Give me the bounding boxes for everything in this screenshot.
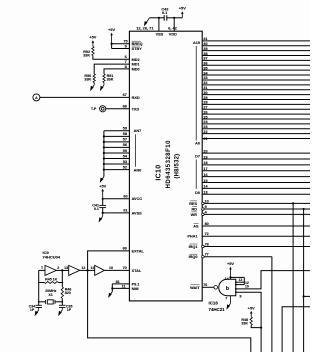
wire address bus pin 35 <box>202 69 310 71</box>
svg-text:52: 52 <box>123 165 127 169</box>
node dot crystal left <box>38 301 40 303</box>
wire AN pin 58 <box>104 135 129 137</box>
wire address bus pin 29 <box>202 98 310 100</box>
svg-text:60: 60 <box>123 194 127 198</box>
wire XTAL pin 70 <box>104 269 129 271</box>
svg-text:68: 68 <box>123 105 127 109</box>
wire gate input 12 <box>236 284 245 286</box>
svg-text:WR: WR <box>191 213 198 217</box>
node junction dot AN0 <box>103 168 105 170</box>
svg-text:30: 30 <box>203 91 207 95</box>
svg-text:MD0: MD0 <box>132 67 140 71</box>
svg-text:41: 41 <box>203 37 207 41</box>
svg-text:28: 28 <box>203 101 207 105</box>
svg-text:RXD: RXD <box>132 96 140 100</box>
svg-text:74HC21: 74HC21 <box>209 307 226 312</box>
wire data bus pin 18 <box>202 164 310 166</box>
svg-text:54: 54 <box>123 154 128 158</box>
wire address bus pin 22 <box>202 133 310 135</box>
resistor R50 <box>93 74 95 83</box>
wire address bus pin 23 <box>202 128 310 130</box>
svg-text:AS: AS <box>193 225 199 229</box>
wire AN pin 52 <box>104 169 129 171</box>
node junction dot AVCC <box>102 198 104 200</box>
svg-text:VSS: VSS <box>156 32 164 36</box>
svg-text:36: 36 <box>203 62 207 66</box>
wire data bus pin 14 <box>202 187 310 189</box>
ground arrow top-left <box>148 18 149 20</box>
wire IRQ0 pin 77 <box>202 256 272 258</box>
svg-text:21: 21 <box>203 137 207 141</box>
svg-text:20: 20 <box>203 149 207 153</box>
wire gate input 9 <box>236 292 261 352</box>
svg-text:+5V: +5V <box>108 27 115 32</box>
capacitor C41 <box>99 205 106 207</box>
svg-text:11: 11 <box>122 284 126 288</box>
svg-text:38: 38 <box>203 52 207 56</box>
node VDD junction dot <box>173 17 175 19</box>
resistor R48 <box>250 317 252 325</box>
svg-text:EXTAL: EXTAL <box>132 249 145 253</box>
capacitor C34 <box>36 305 42 307</box>
svg-text:1: 1 <box>41 266 43 270</box>
node junction dot AN2 <box>103 157 105 159</box>
wire address bus pin 30 <box>202 94 310 96</box>
svg-text:6: 6 <box>125 55 127 59</box>
svg-text:55: 55 <box>123 149 127 153</box>
wire gate input 10 from right <box>236 271 310 289</box>
svg-text:12: 12 <box>81 266 85 270</box>
svg-text:74HCU04: 74HCU04 <box>43 254 61 259</box>
wire RES vertical to bottom <box>292 203 294 352</box>
svg-text:(H8/532): (H8/532) <box>174 154 180 179</box>
inversion bubble IRQ0 <box>202 255 205 258</box>
AN range line <box>135 134 137 167</box>
wire address bus pin 40 <box>202 45 310 47</box>
svg-text:A0: A0 <box>195 142 200 146</box>
inverter U1a (pins 1-2) <box>45 265 56 275</box>
wire AVSS pin 61 <box>103 212 130 214</box>
svg-text:40: 40 <box>203 42 207 46</box>
ground below AN ladder <box>100 177 104 183</box>
svg-text:VDD: VDD <box>169 32 177 36</box>
wire data bus pin 16 <box>202 176 310 178</box>
wire capacitor to AVSS <box>102 208 104 213</box>
wire WR pin 4 <box>202 213 310 215</box>
wire P9.1 pin 81 <box>112 283 129 285</box>
svg-text:+5V: +5V <box>248 305 255 310</box>
svg-text:76: 76 <box>203 283 207 287</box>
wire TXD pin 68 <box>106 108 130 110</box>
wire data bus pin 15 <box>202 181 310 183</box>
svg-text:23: 23 <box>203 125 207 129</box>
inverter U1c (pins 11-10) <box>95 265 105 275</box>
wire address bus pin 31 <box>202 89 310 91</box>
svg-text:AVSS: AVSS <box>132 211 143 215</box>
svg-text:WAIT: WAIT <box>190 286 200 290</box>
svg-text:b: b <box>226 286 229 292</box>
svg-text:13: 13 <box>239 278 243 282</box>
wire address bus pin 33 <box>202 79 310 81</box>
wire BREQ pin 75 <box>112 43 130 45</box>
svg-text:+5V: +5V <box>227 261 234 266</box>
svg-text:9: 9 <box>205 205 207 209</box>
svg-text:MD2: MD2 <box>132 58 140 62</box>
resistor R45 feedback <box>39 282 45 284</box>
ground below C34 <box>38 308 40 310</box>
wire data bus pin 19 <box>202 158 310 160</box>
svg-text:PHA1: PHA1 <box>187 235 197 239</box>
svg-text:1P: 1P <box>30 308 35 312</box>
node dot crystal right <box>61 301 63 303</box>
svg-text:22: 22 <box>203 130 207 134</box>
svg-text:10: 10 <box>205 199 209 203</box>
wire AVCC to capacitor C41 <box>102 199 104 206</box>
svg-text:7: 7 <box>125 60 127 64</box>
svg-text:7: 7 <box>225 296 227 300</box>
wire AN pin 54 <box>104 158 129 160</box>
wire data bus pin 13 <box>202 193 310 195</box>
wire VDD stub to IC top <box>173 18 175 31</box>
wire AS pin 80 <box>202 225 310 227</box>
node junction dot EXTAL tap <box>87 269 89 271</box>
wire AN pin 57 <box>104 141 129 143</box>
svg-text:D7: D7 <box>195 154 200 158</box>
svg-text:D0: D0 <box>195 191 200 195</box>
svg-text:56: 56 <box>123 143 127 147</box>
wire MD0 pin 8 <box>104 69 129 74</box>
svg-text:33K: 33K <box>83 54 90 58</box>
svg-text:IC16: IC16 <box>209 300 219 305</box>
svg-text:17: 17 <box>203 167 207 171</box>
svg-text:67: 67 <box>123 93 127 97</box>
svg-text:STBY: STBY <box>132 47 143 51</box>
wire R46 to crystal <box>61 298 63 305</box>
svg-text:27: 27 <box>203 106 207 110</box>
wire down to STBY <box>111 44 113 49</box>
node junction dot AN4 <box>103 146 105 148</box>
wire PHA1 pin 72 <box>202 235 310 237</box>
svg-text:70: 70 <box>123 266 127 270</box>
wire address bus pin 21 <box>202 138 310 140</box>
capacitor C35 <box>59 305 65 307</box>
svg-text:HD6435328F10: HD6435328F10 <box>166 140 172 189</box>
svg-text:15: 15 <box>203 179 207 183</box>
svg-text:RD: RD <box>192 208 198 212</box>
svg-text:10: 10 <box>109 266 113 270</box>
node junction dot oscillator output <box>61 269 63 271</box>
svg-text:25: 25 <box>203 115 207 119</box>
wire WAIT pin 76 <box>202 286 214 288</box>
svg-text:11: 11 <box>90 266 94 270</box>
wire IRQ1 pin 78 <box>202 246 310 248</box>
power +5V top <box>179 6 186 18</box>
wire R52 to MD2 <box>93 56 129 60</box>
wire address bus pin 34 <box>202 74 310 76</box>
wire AN ladder vertical bus <box>103 131 105 177</box>
svg-text:59: 59 <box>123 127 127 131</box>
wire AN pin 53 <box>104 163 129 165</box>
svg-text:78: 78 <box>205 243 209 247</box>
wire data bus pin 20 <box>202 152 310 154</box>
svg-text:IRQ1: IRQ1 <box>189 245 198 249</box>
ground below gate <box>226 303 230 309</box>
svg-text:2: 2 <box>57 266 59 270</box>
svg-text:X1: X1 <box>48 293 52 297</box>
svg-text:33K: 33K <box>107 78 114 82</box>
wire AN pin 55 <box>104 152 129 154</box>
gate output inversion bubble <box>214 286 218 290</box>
inversion bubble RD <box>202 208 205 211</box>
node junction dot NMI <box>111 287 113 289</box>
wire inverter input pin 1 <box>39 269 45 271</box>
node junction dot AN5 <box>103 141 105 143</box>
resistor R52 <box>92 46 94 55</box>
ground below NMI <box>108 292 112 298</box>
wire IRQ0 down to bottom <box>271 257 273 352</box>
ground below R51 <box>103 83 105 85</box>
node junction dot RD stub <box>303 295 305 297</box>
wire AN pin 56 <box>104 146 129 148</box>
wire address bus pin 39 <box>202 50 310 52</box>
svg-text:33K: 33K <box>84 78 91 82</box>
wire EXTAL pin 69 <box>88 251 130 271</box>
wire AN pin 59 <box>104 130 129 132</box>
svg-text:69: 69 <box>123 247 127 251</box>
svg-text:T.P: T.P <box>91 107 97 111</box>
ground below R50 <box>93 83 95 85</box>
wire P9.1 down to NMI <box>111 284 113 292</box>
wire entering right edge going to bottom <box>282 307 310 352</box>
wire address bus pin 27 <box>202 108 310 110</box>
svg-text:53: 53 <box>123 160 127 164</box>
svg-text:NMI: NMI <box>132 287 139 291</box>
wire RD pin 9 <box>202 208 310 210</box>
wire pin2 to pin13 <box>56 269 68 271</box>
wire R48 to input 9 net <box>251 325 261 327</box>
power +5V for R52 <box>89 35 96 47</box>
svg-text:R45 1K: R45 1K <box>45 278 58 282</box>
wire VSS/VDD top rail <box>149 17 164 19</box>
svg-text:9: 9 <box>125 44 127 48</box>
test point circles <box>100 106 106 112</box>
wire AVCC pin 60 <box>103 198 130 200</box>
svg-text:31: 31 <box>203 86 207 90</box>
svg-text:61: 61 <box>123 209 127 213</box>
wire address bus pin 37 <box>202 59 310 61</box>
svg-text:4: 4 <box>205 210 208 214</box>
wire MD1 pin 7 <box>94 64 129 74</box>
node dot R45 right <box>61 282 63 284</box>
node junction dot RES branch <box>292 202 294 204</box>
microcontroller IC10 body <box>129 31 202 301</box>
wire address bus pin 36 <box>202 64 310 66</box>
svg-text:18: 18 <box>203 161 207 165</box>
wire tied inputs loop right <box>243 277 245 284</box>
capacitor C43 plates <box>163 15 165 20</box>
svg-text:35: 35 <box>203 66 207 70</box>
svg-text:P9.1: P9.1 <box>132 282 140 286</box>
wire address bus pin 38 <box>202 55 310 57</box>
svg-text:AVCC: AVCC <box>132 197 143 201</box>
svg-text:9: 9 <box>240 294 242 298</box>
svg-text:77: 77 <box>205 253 209 257</box>
wire address bus pin 28 <box>202 103 310 105</box>
svg-text:MD1: MD1 <box>132 63 140 67</box>
inversion bubble IRQ1 <box>202 245 205 248</box>
wire address bus pin 25 <box>202 118 310 120</box>
wire tied inputs loop top <box>231 276 245 278</box>
power +5V for gate pin 14 <box>227 261 234 279</box>
wire RES pin 10 <box>202 202 310 204</box>
A bus range line <box>195 46 197 141</box>
svg-text:12, 26, 71: 12, 26, 71 <box>136 26 154 31</box>
svg-text:72: 72 <box>205 232 209 236</box>
power +5V for BREQ/STBY <box>108 27 115 44</box>
node A connector circle <box>33 94 40 101</box>
node dot R45 left <box>38 282 40 284</box>
svg-text:XTAL: XTAL <box>132 269 142 273</box>
svg-text:AN7: AN7 <box>134 129 142 133</box>
wire NMI pin 11 <box>112 287 129 289</box>
wire data bus pin 17 <box>202 170 310 172</box>
svg-text:39: 39 <box>203 47 207 51</box>
svg-text:14: 14 <box>225 277 229 281</box>
wire RD vertical to bottom <box>303 209 305 352</box>
svg-text:37: 37 <box>203 57 207 61</box>
wire rail right segment to +5V <box>167 17 183 19</box>
svg-text:75: 75 <box>123 39 127 43</box>
svg-text:+5V: +5V <box>179 6 186 11</box>
svg-text:26: 26 <box>203 110 207 114</box>
node junction dot BREQ <box>111 43 113 45</box>
svg-text:33: 33 <box>203 76 207 80</box>
svg-text:IRQ0: IRQ0 <box>189 255 198 259</box>
crystal X1 wires <box>39 301 46 303</box>
svg-text:+5V: +5V <box>89 35 96 40</box>
resistor R46 <box>61 287 63 299</box>
gate input connection dots <box>235 281 237 283</box>
svg-text:A19: A19 <box>193 41 200 45</box>
svg-text:TXD: TXD <box>132 107 140 111</box>
svg-text:57: 57 <box>123 138 127 142</box>
wire clock to bottom edge <box>88 270 251 352</box>
svg-text:A: A <box>35 96 38 100</box>
node junction dot AN6 <box>103 135 105 137</box>
node junction dot AVSS <box>102 212 104 214</box>
svg-text:10: 10 <box>245 285 249 289</box>
wire gate input 13 <box>236 281 245 283</box>
node junction dot AN1 <box>103 163 105 165</box>
inverter U1b (pins 13-12) <box>69 265 80 275</box>
svg-text:BREQ: BREQ <box>132 42 143 46</box>
svg-text:19: 19 <box>203 155 207 159</box>
node junction dot RD branch <box>303 208 305 210</box>
svg-text:13: 13 <box>64 266 68 270</box>
svg-text:13: 13 <box>203 190 207 194</box>
svg-text:820: 820 <box>65 291 71 295</box>
svg-text:AN0: AN0 <box>134 168 142 172</box>
svg-text:29: 29 <box>203 96 207 100</box>
inversion bubble RES <box>202 202 205 205</box>
svg-text:IC10: IC10 <box>155 165 162 181</box>
svg-text:58: 58 <box>123 132 127 136</box>
wire address bus pin 41 <box>202 40 310 42</box>
wire oscillator right leg top <box>61 270 63 287</box>
svg-text:80: 80 <box>205 222 209 226</box>
resistor R51 <box>103 74 105 83</box>
node junction dot R48 <box>260 327 262 329</box>
svg-text:32: 32 <box>203 81 207 85</box>
AND gate IC16 body (mirrored) <box>219 279 236 296</box>
wire address bus pin 24 <box>202 123 310 125</box>
wire address bus pin 32 <box>202 84 310 86</box>
crystal X1 body <box>47 300 53 304</box>
wire oscillator left leg <box>38 270 40 305</box>
wire STBY pin 9 <box>112 48 130 50</box>
D bus range line <box>195 160 197 189</box>
node junction dot VCC branch <box>229 276 231 278</box>
svg-text:81: 81 <box>116 280 120 284</box>
svg-text:0.1: 0.1 <box>162 11 167 15</box>
svg-text:0.1: 0.1 <box>94 207 99 211</box>
crystal X1 plates <box>44 300 46 304</box>
svg-text:1P: 1P <box>67 308 72 312</box>
node junction dot AN3 <box>103 152 105 154</box>
wire RD stub to right edge <box>304 295 310 297</box>
wire RXD pin 67 <box>40 96 129 98</box>
inversion bubble WR <box>202 213 205 216</box>
svg-text:8: 8 <box>125 65 127 69</box>
wire pin12 to pin11 <box>80 269 95 271</box>
svg-text:16: 16 <box>203 173 207 177</box>
power +5V for R48 <box>248 305 255 317</box>
wire VSS stub to IC top <box>158 18 160 31</box>
svg-text:RES: RES <box>189 202 197 206</box>
svg-text:6, 42: 6, 42 <box>168 26 177 31</box>
wire address bus pin 26 <box>202 113 310 115</box>
svg-text:33K: 33K <box>241 322 248 326</box>
node VSS junction dot <box>158 17 160 19</box>
ground below C35 <box>61 308 63 310</box>
power +5V for AVCC <box>99 183 106 198</box>
wire gate ground pin 7 <box>230 296 232 304</box>
svg-text:+5V: +5V <box>99 183 106 188</box>
ground below AVSS <box>102 213 104 216</box>
